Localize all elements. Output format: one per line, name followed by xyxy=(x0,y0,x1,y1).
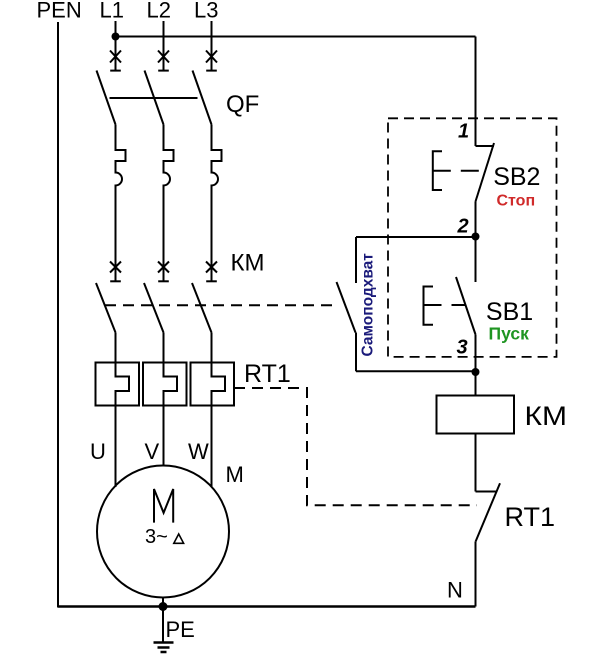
svg-text:N: N xyxy=(447,578,463,603)
wire motor to PEN bus xyxy=(162,598,164,607)
relay RT1 heater box pole3 xyxy=(191,363,235,406)
wire L1 drop xyxy=(115,21,117,70)
terminal X mark KM pole3 xyxy=(206,262,217,273)
wire KM coil to RT1 contact xyxy=(475,434,477,492)
wire PE lead xyxy=(162,607,164,643)
wire node2 to self-hold branch xyxy=(356,236,476,238)
breaker QF blade pole2 xyxy=(145,71,164,125)
svg-text:L3: L3 xyxy=(194,0,218,23)
node 2 junction dot xyxy=(472,233,480,241)
terminal X mark L1 xyxy=(110,51,121,63)
relay RT1 heater element pole2 xyxy=(164,363,178,406)
button enclosure dashed box xyxy=(388,118,557,357)
relay RT1 heater box pole2 xyxy=(143,363,187,406)
svg-text:Самоподхват: Самоподхват xyxy=(360,253,377,357)
mechanical linkage RT1 dashed xyxy=(234,388,477,505)
wire control phase drop xyxy=(475,37,477,147)
svg-text:U: U xyxy=(90,439,106,464)
contact RT1 fixed tick xyxy=(476,491,498,493)
wire control-supply bus from L1 to control circuit xyxy=(116,36,476,38)
relay RT1 heater element pole1 xyxy=(116,363,130,406)
wire KM pole1 to RT1 xyxy=(115,333,117,363)
wire bottom PEN bus xyxy=(58,605,476,608)
wire self-hold branch lower xyxy=(355,333,357,372)
motor delta symbol xyxy=(174,534,184,543)
svg-text:3: 3 xyxy=(457,337,468,359)
wire PEN vertical conductor xyxy=(57,22,59,608)
breaker QF thermal-magnetic release pole1 xyxy=(116,125,126,282)
wire SB2 to node 2 xyxy=(475,202,477,237)
breaker QF blade pole3 xyxy=(193,71,212,125)
svg-text:1: 1 xyxy=(458,121,469,143)
terminal tick KM pole1 xyxy=(110,280,121,282)
wire KM pole2 to RT1 xyxy=(163,333,165,363)
svg-text:Пуск: Пуск xyxy=(489,324,530,344)
terminal tick QF pole1 xyxy=(110,70,121,72)
wire L2 drop xyxy=(163,21,165,70)
terminal X mark KM pole1 xyxy=(110,262,121,273)
relay RT1 heater box pole1 xyxy=(96,363,140,406)
svg-text:QF: QF xyxy=(226,91,259,118)
breaker QF thermal-magnetic release pole3 xyxy=(212,125,222,282)
terminal tick QF pole2 xyxy=(158,70,169,72)
terminal tick KM pole2 xyxy=(158,280,169,282)
wire SB1 to KM coil xyxy=(475,335,477,396)
contactor KM main blade pole2 xyxy=(144,283,164,333)
svg-text:Стоп: Стоп xyxy=(497,193,536,210)
svg-text:RT1: RT1 xyxy=(244,360,291,388)
breaker QF blade pole1 xyxy=(97,71,116,125)
ground PE symbol xyxy=(154,643,174,653)
button SB1 blade xyxy=(456,277,476,335)
svg-text:L1: L1 xyxy=(100,0,124,23)
wire self-hold branch to node 3 xyxy=(356,370,476,372)
svg-text:3~: 3~ xyxy=(145,526,168,548)
svg-text:SB2: SB2 xyxy=(493,163,540,191)
svg-text:PE: PE xyxy=(166,617,195,642)
wire node2 to SB1 xyxy=(475,237,477,283)
button SB2 blade xyxy=(476,143,495,202)
svg-text:2: 2 xyxy=(457,216,469,238)
contact KM auxiliary self-hold blade xyxy=(337,282,356,333)
wire motor lead U xyxy=(115,406,117,488)
contactor KM main blade pole1 xyxy=(96,283,116,333)
contact RT1 blade xyxy=(476,483,501,541)
relay RT1 heater element pole3 xyxy=(212,363,226,406)
contactor KM main blade pole3 xyxy=(192,283,212,333)
breaker QF linkage bar xyxy=(110,97,198,99)
button SB2 actuator bracket xyxy=(433,151,442,190)
button SB1 actuator rod dashed xyxy=(424,304,467,306)
svg-text:КМ: КМ xyxy=(525,401,568,431)
wire L3 drop xyxy=(211,21,213,70)
breaker QF thermal-magnetic release pole2 xyxy=(164,125,174,282)
wire motor lead V xyxy=(163,406,165,466)
terminal X mark L2 xyxy=(158,51,169,63)
wire self-hold branch upper xyxy=(355,237,357,283)
terminal X mark KM pole2 xyxy=(158,262,169,273)
terminal X mark L3 xyxy=(206,51,217,63)
button SB1 actuator bracket xyxy=(424,287,434,325)
svg-text:V: V xyxy=(145,439,160,464)
mechanical linkage KM dashed xyxy=(105,304,334,306)
node junction dot on L1 xyxy=(112,33,120,41)
svg-text:W: W xyxy=(188,439,209,464)
wire KM pole3 to RT1 xyxy=(211,333,213,363)
wire RT1 contact to N bus xyxy=(475,542,477,607)
terminal tick QF pole3 xyxy=(206,70,217,72)
node junction dot motor to PEN bus xyxy=(159,602,168,611)
svg-text:L2: L2 xyxy=(147,0,171,23)
terminal tick KM pole3 xyxy=(206,280,217,282)
button SB2 actuator rod dashed xyxy=(433,170,485,172)
svg-text:КМ: КМ xyxy=(231,250,265,277)
svg-text:SB1: SB1 xyxy=(486,298,533,326)
svg-text:RT1: RT1 xyxy=(505,502,556,532)
coil KM rectangle xyxy=(437,396,515,434)
motor M glyph xyxy=(154,489,173,523)
node 3 junction dot xyxy=(472,368,480,376)
svg-text:M: M xyxy=(226,462,244,487)
wire motor lead W xyxy=(211,406,213,488)
button SB2 fixed tick xyxy=(476,145,495,147)
motor M1 circle xyxy=(97,466,229,598)
svg-text:PEN: PEN xyxy=(37,0,82,23)
